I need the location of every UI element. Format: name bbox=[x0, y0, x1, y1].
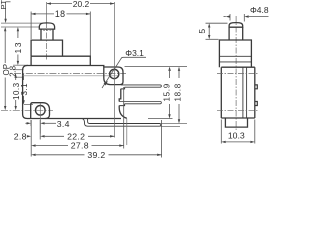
body right edge below tab2 bbox=[119, 106, 127, 119]
dimension PT bbox=[4, 2, 10, 23]
hole Φ3.1 top (circle) bbox=[110, 69, 119, 78]
leader line for Φ3.1 bbox=[102, 57, 146, 88]
svg-text:15.9: 15.9 bbox=[162, 83, 171, 101]
plunger boss bbox=[31, 40, 62, 56]
side bushing internal lines bbox=[219, 56, 251, 62]
body right edge between tabs bbox=[119, 89, 121, 102]
switch body outline (front view) bbox=[23, 66, 121, 119]
wire hole2 horizontal centerline extended left bbox=[1, 109, 53, 111]
bottom terminal inner-bottom extension line bbox=[161, 123, 187, 125]
dimension 10.3 (side) bbox=[221, 120, 255, 144]
wire hole1 vertical centerline extension (top) bbox=[114, 2, 116, 67]
wire body-corner extension line bbox=[126, 119, 128, 146]
hole2 vertical centerline bbox=[39, 104, 41, 134]
bottom terminal blade (front view) bbox=[82, 119, 161, 127]
dimension 10.3 (hole spacing vertical) bbox=[15, 74, 17, 111]
terminal tab 2 bbox=[119, 102, 161, 104]
svg-text:27.8: 27.8 bbox=[71, 141, 89, 151]
plunger cylinder (front view) bbox=[41, 29, 53, 40]
dimension 15.9 bbox=[125, 67, 188, 119]
dimension 27.8 bbox=[31, 87, 124, 149]
side terminal nub 2 bbox=[255, 102, 257, 106]
svg-text:13: 13 bbox=[13, 41, 23, 53]
side hidden centerline hole2 bbox=[217, 109, 259, 111]
wire operating-position reference line bbox=[1, 26, 40, 28]
dimension 18 bbox=[31, 12, 90, 56]
plunger dome (front view) bbox=[39, 23, 54, 29]
dimension OP bbox=[4, 27, 6, 110]
svg-text:18: 18 bbox=[55, 9, 66, 19]
svg-text:Φ3.1: Φ3.1 bbox=[125, 48, 144, 58]
hole Φ3.1 bottom (circle) bbox=[36, 106, 46, 116]
wire hole1 horizontal centerline extended left bbox=[14, 73, 126, 75]
side bushing block bbox=[219, 40, 251, 67]
svg-text:2.8: 2.8 bbox=[14, 131, 27, 141]
dimension 18.8 bbox=[178, 67, 180, 124]
dimension 20.2 bbox=[47, 2, 115, 4]
svg-text:Φ4.8: Φ4.8 bbox=[250, 5, 269, 15]
dimension 22.2 bbox=[40, 120, 114, 140]
dimension 39.2 bbox=[31, 120, 161, 158]
dimension 2.8 (bottom) bbox=[27, 120, 31, 157]
side view centerline bbox=[235, 16, 237, 130]
side bottom tab bbox=[225, 118, 247, 127]
bottom-left hole boss bbox=[31, 103, 50, 119]
side plunger cylinder bbox=[229, 27, 243, 40]
side body inner vertical lines bbox=[243, 67, 247, 118]
dimension 13 bbox=[17, 27, 19, 65]
wire body-top extension line bbox=[13, 64, 28, 66]
svg-text:PT: PT bbox=[0, 0, 8, 10]
svg-text:5: 5 bbox=[197, 29, 207, 34]
body parting line bbox=[23, 75, 119, 77]
wire short reference line bbox=[13, 69, 24, 71]
side hidden centerline hole1 bbox=[217, 73, 259, 75]
bottom terminal outer-bottom extension line bbox=[161, 125, 180, 127]
mounting ear (top-right pad) bbox=[104, 67, 123, 85]
side terminal nub 1 bbox=[255, 85, 257, 89]
svg-text:10.3: 10.3 bbox=[228, 131, 245, 141]
flange step bbox=[31, 56, 90, 65]
dimension 5 bbox=[206, 23, 228, 39]
hole1 vertical centerline bbox=[114, 67, 116, 82]
svg-text:3.4: 3.4 bbox=[57, 119, 70, 129]
hole1 vertical centerline lower extension bbox=[114, 81, 116, 138]
svg-text:20.2: 20.2 bbox=[73, 0, 90, 9]
wire free-position reference line bbox=[1, 22, 46, 24]
dimension 3.1 bbox=[22, 74, 24, 105]
side plunger dome bbox=[229, 23, 243, 28]
svg-text:39.2: 39.2 bbox=[87, 150, 105, 159]
dimension 3.4 bbox=[25, 120, 56, 126]
svg-text:3.1: 3.1 bbox=[20, 83, 29, 96]
wire 20.2 left extension (plunger centerline upper) bbox=[46, 2, 48, 22]
terminal tab 1 bbox=[121, 85, 162, 87]
plunger hidden arc (dashed) bbox=[40, 29, 54, 30]
svg-text:18.8: 18.8 bbox=[174, 83, 183, 101]
side main body bbox=[221, 67, 255, 118]
dimension Φ4.8 bbox=[224, 14, 269, 22]
wire boss-top extension line bbox=[24, 104, 33, 106]
wire plunger centerline bbox=[46, 22, 48, 60]
wire parting-line extension bbox=[15, 76, 23, 78]
